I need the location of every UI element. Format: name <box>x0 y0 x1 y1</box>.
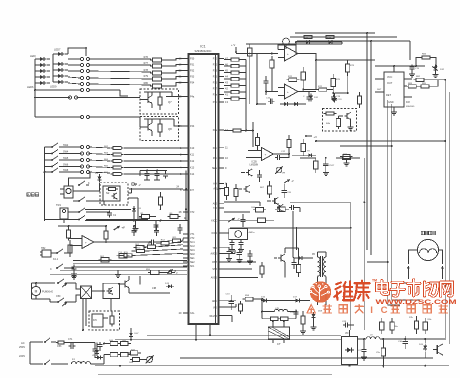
resistor R40 in Q9 box <box>324 112 337 115</box>
resistor YY1 <box>117 252 130 258</box>
wire opamp out right <box>104 241 151 243</box>
capacitor C31 <box>291 258 296 269</box>
IR receiver module U3 <box>60 186 73 198</box>
component TR1 box <box>60 208 68 223</box>
op-amp U5 (IC2B LM358N) <box>255 148 284 161</box>
wire LED block top link <box>85 47 87 49</box>
wire long y339.6 <box>115 339 342 341</box>
switch contact K1-1 <box>78 181 90 186</box>
wire IC8 gnd <box>391 107 397 115</box>
resistor R14 <box>134 247 147 252</box>
wire misc remote <box>134 213 156 221</box>
svg-text:+: + <box>265 153 267 157</box>
connector CN1 pin circles <box>80 57 89 91</box>
resistor R46 <box>224 218 274 222</box>
wire right column mesh <box>303 53 347 93</box>
capacitor C25 AVDD <box>226 247 232 262</box>
transistor Q9 <box>338 112 351 120</box>
wire ADC VID nets <box>224 299 262 322</box>
svg-text:P12: P12 <box>213 64 218 67</box>
svg-text:LED6: LED6 <box>27 85 34 89</box>
wire motor to contacts <box>36 283 58 302</box>
svg-text:LM358N: LM358N <box>250 165 259 167</box>
resistor R51 <box>229 64 242 67</box>
label T2 <box>312 254 316 256</box>
transistor Q5b <box>267 197 279 205</box>
svg-text:K14: K14 <box>190 173 195 176</box>
phono input circle <box>283 38 290 49</box>
motor M2 spindle <box>418 240 439 261</box>
watermark text 子 (vector outline) <box>391 282 404 296</box>
svg-text:P1b: P1b <box>213 101 218 104</box>
diode D47 zener <box>129 328 139 340</box>
wire Q8 top rail to IC pin 34 <box>144 119 183 126</box>
switch SW2 <box>45 143 69 148</box>
transistor Q4 <box>241 169 253 177</box>
resistor R89 left stack <box>301 311 305 328</box>
switch contact K1-2 <box>73 197 89 202</box>
wire top bus 1 <box>290 36 397 38</box>
svg-text:TR1: TR1 <box>56 203 61 207</box>
resistor R82 IC8 <box>414 76 427 81</box>
svg-text:RST: RST <box>212 261 217 264</box>
transistor Q10 <box>106 287 113 295</box>
resistor R57b vertical <box>238 301 242 314</box>
diode VD inner <box>345 348 354 353</box>
label LED1a <box>30 54 36 58</box>
wire vid row <box>267 300 310 302</box>
transformer T2 core <box>321 256 323 277</box>
svg-text:SW2: SW2 <box>63 144 69 147</box>
svg-text:P2a: P2a <box>213 129 218 132</box>
wire top link to right buses <box>367 33 410 60</box>
wire right bus B <box>370 41 372 255</box>
diode D17 <box>293 297 302 303</box>
resistor R56 <box>229 90 242 93</box>
wire IC8 pins right <box>404 79 412 97</box>
wire LED matrix rows to connectors <box>68 59 80 84</box>
LED column 1 (LED1-LED5) <box>35 57 50 85</box>
watermark text 市 (vector outline) <box>408 280 420 296</box>
wire receiver to N2 <box>73 174 100 192</box>
IC U1 (IC1 SZ91B04249C) body <box>189 45 219 325</box>
wire R14 to IC <box>131 249 183 251</box>
svg-text:K2-1: K2-1 <box>53 258 59 261</box>
diode D20 <box>95 343 99 357</box>
svg-text:P31: P31 <box>190 64 195 67</box>
resistor R6b horizontal <box>168 213 181 219</box>
transformer TR1 label <box>56 203 61 207</box>
capacitor C52 <box>71 265 77 277</box>
svg-text:VR: VR <box>282 173 285 175</box>
resistor R81 in Q7 box <box>158 92 162 110</box>
resistor R76 <box>144 56 164 62</box>
wire SW5 row <box>62 160 110 161</box>
label LED1b <box>27 85 34 89</box>
watermark url WWW.DZSC.COM <box>376 299 458 306</box>
node -V circle <box>132 183 141 187</box>
wire motor leads <box>408 250 442 264</box>
wire bottom bus y367 right <box>341 365 449 367</box>
capacitor C517 <box>323 158 335 171</box>
svg-text:SZ91B04249C: SZ91B04249C <box>194 49 211 53</box>
wire top bus 3 <box>295 32 373 34</box>
ground Q9 emitter <box>348 120 354 130</box>
wire hline y202.3 <box>290 201 351 203</box>
arrow node -Y <box>228 217 240 222</box>
capacitor C28 <box>342 321 354 328</box>
svg-text:C53: C53 <box>57 345 62 348</box>
wire right area h-line y static <box>388 300 420 305</box>
wire SW8 row <box>62 172 110 173</box>
arrow node B <box>167 270 177 274</box>
capacitor C30 <box>398 336 408 349</box>
resistor R1 horizontal <box>139 213 152 219</box>
wire hline y227.9 <box>230 227 351 229</box>
arrow +V remote <box>113 226 125 230</box>
op-amp U2B <box>278 84 310 99</box>
wire LED col1 left bus <box>34 59 36 90</box>
wire long y335.3 <box>147 334 341 336</box>
svg-text:K12: K12 <box>190 160 195 163</box>
transistor Q2b <box>277 204 284 212</box>
svg-text:VT2: VT2 <box>190 237 195 240</box>
watermark text I (line2) <box>370 305 373 316</box>
watermark text 全 (vector small) <box>307 305 315 313</box>
resistor R26a vertical <box>380 318 384 334</box>
resistor R6 vertical <box>158 192 162 209</box>
transistor Q11 lower left <box>118 276 129 293</box>
resistor R13 <box>145 243 158 248</box>
connector circle -V node <box>161 271 178 275</box>
wire relay to Q10 <box>92 290 105 292</box>
diode D23 <box>282 102 290 106</box>
resistor R5b vertical <box>423 318 432 334</box>
transformer CT hatched box <box>268 327 289 346</box>
resistor R01 <box>134 244 147 250</box>
transformer L1 winding <box>71 358 97 364</box>
wire right bus F <box>448 92 450 344</box>
wire topright mesh 2 <box>236 53 278 55</box>
svg-text:R76: R76 <box>144 56 149 59</box>
svg-text:P30: P30 <box>190 58 195 61</box>
wire R57 link <box>224 98 246 100</box>
capacitor C19 <box>332 93 342 103</box>
svg-text:P34: P34 <box>190 82 195 85</box>
capacitor C2 vertical <box>153 221 158 232</box>
wire IC8 left pins <box>375 79 384 92</box>
capacitor C27 <box>358 339 367 360</box>
wire contacts to relay <box>68 283 81 302</box>
wire receiver top to bus <box>69 172 91 186</box>
resistor R63 <box>104 153 124 157</box>
resistor R41 vertical <box>217 183 229 200</box>
svg-text:-V: -V <box>138 184 141 187</box>
watermark text 购 (vector small) <box>407 305 415 313</box>
wire Q8 row bend <box>139 117 141 127</box>
svg-text:C517: C517 <box>329 165 335 167</box>
resistor R07 vertical <box>260 181 272 198</box>
wire opamp top rail <box>58 226 106 239</box>
diode T8 <box>306 151 314 158</box>
capacitor C20 <box>282 184 292 198</box>
resistor R78 <box>144 69 164 75</box>
svg-text:220V: 220V <box>19 354 25 358</box>
inductor L9 <box>357 335 390 340</box>
svg-text:P33: P33 <box>190 76 195 79</box>
fuse C53 <box>56 341 67 348</box>
wire R66 to IC1 <box>124 173 183 175</box>
svg-text:C50: C50 <box>56 295 61 298</box>
watermark text 采 (vector small) <box>391 305 399 313</box>
svg-text:+ V: + V <box>231 43 235 47</box>
diode D24 <box>292 102 300 106</box>
resistor R87b below R86 <box>68 240 72 257</box>
wire N2 outputs <box>128 193 138 221</box>
crystal resonator XM0a <box>224 229 255 240</box>
resistor R54 <box>229 84 242 87</box>
wire SW4 row <box>62 154 110 155</box>
resistor R52 <box>229 71 242 74</box>
junction dots batch 1 <box>68 170 188 228</box>
svg-text:DET: DET <box>377 89 382 91</box>
svg-text:J4B: J4B <box>152 287 157 290</box>
svg-text:IC5: IC5 <box>93 319 97 322</box>
resistor R48b <box>129 357 142 363</box>
watermark text 大 (vector small) <box>355 305 363 313</box>
dashed box bottom-left IC5 region <box>89 311 120 330</box>
svg-text:OUT: OUT <box>387 82 393 85</box>
svg-text:P32: P32 <box>190 70 195 73</box>
wire R62 to IC1 <box>124 147 183 149</box>
svg-text:SD1: SD1 <box>190 249 195 252</box>
svg-text:+V: +V <box>122 227 125 230</box>
resistor R37 vertical <box>287 135 291 152</box>
svg-text:R77: R77 <box>144 62 149 65</box>
arrow motor lead left <box>407 266 410 279</box>
resistor R71 vertical left <box>248 44 252 60</box>
wire top rail y170.5 <box>140 171 167 177</box>
resistor R73 vertical <box>301 67 305 84</box>
wire R63 to IC1 <box>124 154 183 156</box>
wire R71 drop <box>249 60 251 104</box>
resistor R87 vertical <box>104 226 108 243</box>
resistor R35 vertical <box>301 139 305 156</box>
capacitor C22 <box>290 310 299 317</box>
resistor R84 top right <box>416 54 436 67</box>
switch contact K2-1 <box>51 249 67 261</box>
capacitor C26a <box>163 171 168 178</box>
wire vline x186 <box>185 171 187 221</box>
wire opamp mid net <box>246 151 316 158</box>
wire CT links <box>273 321 284 343</box>
wire bus band 5 <box>50 273 187 275</box>
resistor R65 <box>104 166 124 170</box>
wire VD box stubs <box>349 330 351 366</box>
wire AC left bracket <box>29 342 31 364</box>
capacitor C18 <box>303 92 312 101</box>
wire vline x296.4 <box>295 228 297 250</box>
op-amp U2A <box>278 46 316 61</box>
wire motor row link <box>403 282 447 284</box>
switch contact K3-2 with arrow <box>56 295 68 306</box>
wire LED col2 bus <box>53 48 86 82</box>
IC U1 right pin stubs with numbers <box>209 57 228 318</box>
svg-text:SC1: SC1 <box>190 241 195 244</box>
label remote yaokongqi (vector smudge) <box>27 193 39 196</box>
svg-text:K10: K10 <box>190 147 195 150</box>
wire vline x292.9 <box>292 211 294 257</box>
label LED9 <box>50 85 57 89</box>
svg-text:-V: -V <box>291 179 294 183</box>
resistor R7c vertical <box>409 316 419 334</box>
svg-text:K13: K13 <box>190 167 195 170</box>
transistor Q8 <box>140 119 152 136</box>
svg-text:P15: P15 <box>213 76 218 79</box>
zener diode D32 <box>432 65 445 78</box>
resistor R72b horizontal <box>316 86 329 91</box>
svg-text:P1a: P1a <box>213 94 218 97</box>
resistor R11 <box>170 237 183 242</box>
transistor Q7 <box>140 92 152 108</box>
wire rows connector to resistors <box>89 59 152 90</box>
resistor R82 in Q8 box <box>158 119 162 137</box>
resistor R50 <box>229 58 242 61</box>
wire long row y117 with connector <box>35 90 140 117</box>
ground stack <box>300 320 317 334</box>
arrow motor lead right <box>441 266 444 279</box>
svg-text:K11: K11 <box>190 154 195 157</box>
resistor R48 vertical <box>260 262 264 278</box>
wire resistors to IC1 left pins P30-P34 <box>164 59 183 87</box>
resistor R60b <box>278 317 291 320</box>
capacitor C12 <box>275 151 286 160</box>
box Q10 driver <box>103 283 120 298</box>
op-amp U4 <box>76 236 104 249</box>
resistor R53 <box>229 77 242 80</box>
svg-text:P2b: P2b <box>213 147 218 150</box>
switch SW5 <box>45 156 69 161</box>
label spindle motor zhuzhoudianji (vector smudge) <box>421 231 435 234</box>
arrow node +Y <box>114 226 125 230</box>
wire right bus A <box>366 33 368 250</box>
bridge diode VD1 <box>92 355 103 360</box>
resistor R93 <box>108 352 121 356</box>
svg-text:SW8: SW8 <box>63 169 69 172</box>
switch contact K1-3 <box>68 208 89 213</box>
rectifier VD box <box>342 332 358 364</box>
switch SW8 <box>45 168 69 173</box>
watermark text 网 (vector small) <box>423 305 431 313</box>
ground remote <box>133 221 139 232</box>
svg-text:C: C <box>50 268 52 271</box>
ground audio 1 <box>115 270 121 277</box>
diode V2 <box>95 172 102 183</box>
svg-text:R78: R78 <box>144 69 149 72</box>
svg-text:SW6: SW6 <box>63 164 69 167</box>
resistor R49 vertical <box>296 260 300 277</box>
LED column 2 (LED6-LED10) <box>53 52 68 84</box>
transistor Q6 <box>239 185 250 193</box>
svg-text:VD: VD <box>345 332 349 335</box>
dashed box Q9 mute circuit <box>323 109 357 132</box>
svg-text:+V: +V <box>314 135 318 139</box>
wire right bus E (far right) <box>444 88 446 340</box>
svg-text:ADC: ADC <box>212 300 217 303</box>
svg-text:Q7: Q7 <box>168 100 172 104</box>
svg-text:P17: P17 <box>213 88 218 91</box>
capacitor C71 across AC <box>68 338 75 349</box>
capacitor C14 above band <box>177 224 182 234</box>
ground C517 <box>323 170 329 176</box>
svg-text:KICC: KICC <box>211 220 217 223</box>
wire R54 link <box>224 85 246 87</box>
wire AC section to bus <box>97 344 141 365</box>
junction dots batch 2 <box>256 41 365 229</box>
wire mid net 2 <box>224 202 278 212</box>
diode D16 <box>261 297 269 303</box>
capacitor C1 remote <box>107 211 117 218</box>
diode D13 <box>165 283 174 288</box>
wire R56 link <box>224 91 246 93</box>
wire SW2 row <box>62 147 110 148</box>
svg-text:SEG: SEG <box>212 167 217 170</box>
capacitor C10 <box>154 171 160 181</box>
wire long y141 <box>317 140 445 142</box>
wire right ladder bus vertical <box>245 60 247 131</box>
resistor R7B vertical <box>357 92 361 108</box>
junction dots batch 3 <box>245 130 426 367</box>
diode D26 <box>419 344 427 352</box>
svg-text:SW5: SW5 <box>63 157 69 160</box>
diode D5 <box>294 256 313 260</box>
resistor R67 in N2 box <box>106 188 118 191</box>
resistor R79 <box>144 75 164 81</box>
wire AVSS row <box>224 248 258 278</box>
resistor R90 <box>108 340 121 346</box>
svg-text:DET: DET <box>386 94 391 97</box>
resistor R75 vertical <box>331 74 341 90</box>
resistor R23 horizontal <box>336 154 360 160</box>
wire SW6 row <box>62 167 110 168</box>
wire IC8 vcc top <box>375 65 425 72</box>
resistor R42 vertical <box>234 184 238 201</box>
wire topright mesh vert <box>256 53 266 104</box>
svg-text:XT2: XT2 <box>190 211 195 214</box>
svg-text:P13: P13 <box>213 70 218 73</box>
svg-text:SD2: SD2 <box>190 253 195 256</box>
diode D22 <box>327 38 335 44</box>
wire R51 link <box>224 65 246 67</box>
capacitor C9 <box>144 171 150 181</box>
switch contact K1-4 <box>45 216 90 221</box>
wire left bus to row6 <box>35 89 82 91</box>
svg-text:LED): LED) <box>30 54 36 58</box>
connector circles row SW8 <box>80 170 89 173</box>
capacitor C17 vertical <box>264 76 269 88</box>
capacitor C16 <box>266 98 275 104</box>
svg-text:P4a: P4a <box>190 96 195 99</box>
transistor Q13 power <box>433 344 443 356</box>
svg-text:740: 740 <box>213 207 218 210</box>
relay box JDQ <box>81 286 92 299</box>
transformer T2 secondary coil <box>324 252 326 280</box>
resistor R4b vertical in Q9 box <box>326 116 341 129</box>
watermark logo circle <box>310 281 331 302</box>
capacitor C13 <box>226 294 234 311</box>
wire R12 to IC <box>156 241 183 243</box>
wire right bus D <box>391 104 393 300</box>
